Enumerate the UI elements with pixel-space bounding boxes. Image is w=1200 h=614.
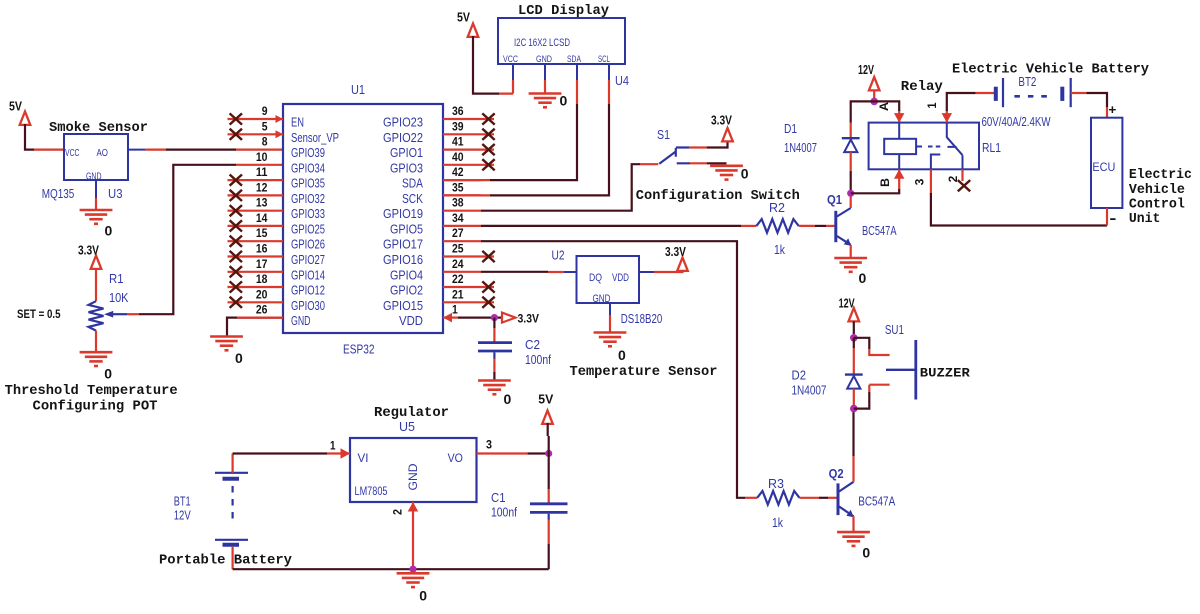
wire ECU - red: [1106, 208, 1108, 226]
svg-text:22: 22: [452, 272, 464, 286]
wire S1 left red: [640, 163, 658, 165]
power 5V (smoke sensor): [9, 99, 30, 125]
svg-text:-: -: [1109, 210, 1116, 227]
svg-text:DS18B20: DS18B20: [621, 311, 663, 326]
svg-text:RL1: RL1: [982, 140, 1001, 155]
svg-text:3: 3: [486, 438, 492, 452]
svg-text:5V: 5V: [538, 392, 553, 407]
wire U1 GND red: [237, 317, 283, 319]
svg-text:2: 2: [390, 509, 404, 515]
ground (U1 GND): [210, 337, 243, 367]
svg-text:B: B: [878, 178, 892, 187]
wire U5 VO dark: [528, 452, 549, 454]
svg-text:GPIO35: GPIO35: [291, 176, 325, 191]
junction (VDD 3.3V node): [491, 314, 498, 321]
svg-text:GPIO17: GPIO17: [383, 237, 423, 252]
svg-text:34: 34: [452, 211, 464, 225]
wire C1 bottom red: [548, 520, 550, 544]
wire U1 GPIO4 to U2 DQ: [481, 271, 548, 273]
svg-text:21: 21: [452, 287, 464, 301]
svg-text:BT1: BT1: [174, 494, 191, 509]
svg-text:SDA: SDA: [567, 54, 581, 65]
ESP32 U1 body: [283, 104, 443, 333]
svg-text:LM7805: LM7805: [355, 484, 388, 498]
wire VDD to C2: [493, 328, 495, 342]
svg-text:GPIO2: GPIO2: [390, 283, 423, 298]
wire C2 to ground: [493, 372, 495, 380]
svg-text:BC547A: BC547A: [862, 223, 897, 238]
wire relay pin B to junction: [851, 189, 900, 193]
U5 pin 2 arrow: [408, 502, 419, 512]
svg-text:10K: 10K: [109, 290, 129, 305]
svg-text:Portable Battery: Portable Battery: [159, 554, 292, 569]
svg-text:GND: GND: [408, 464, 420, 491]
wire S1 to 3.3V: [707, 140, 728, 148]
wire S1 top contact red: [689, 146, 707, 148]
capacitor C2 100nf: [478, 343, 512, 359]
svg-text:14: 14: [256, 211, 268, 225]
wire U5 VI red: [327, 452, 350, 454]
svg-text:GPIO27: GPIO27: [291, 252, 325, 267]
power 12V (buzzer): [839, 296, 860, 322]
svg-text:Control: Control: [1129, 198, 1185, 213]
relay RL1: [869, 123, 979, 170]
wire R2 to Q1 base red: [799, 225, 815, 227]
ground (C2): [478, 381, 511, 408]
regulator U5 LM7805: [350, 438, 477, 502]
svg-text:3: 3: [913, 178, 927, 185]
battery BT1: [215, 473, 248, 545]
wire R3 to Q2 base red: [800, 497, 820, 499]
svg-text:Sensor_VP: Sensor_VP: [291, 130, 339, 145]
svg-text:Configuring POT: Configuring POT: [33, 399, 158, 414]
wire U2 DQ red: [548, 271, 564, 273]
svg-text:12: 12: [256, 180, 268, 194]
svg-text:DQ: DQ: [589, 272, 602, 284]
wire buzzer top lead red: [869, 349, 889, 355]
svg-text:SCK: SCK: [402, 191, 423, 206]
svg-text:16: 16: [256, 241, 268, 255]
wire C1 top red: [548, 489, 550, 503]
wire relay pin B red: [898, 169, 900, 189]
ground (U2): [594, 333, 627, 364]
svg-text:BC547A: BC547A: [858, 494, 895, 509]
wire buzzer bottom lead: [854, 392, 870, 409]
svg-text:0: 0: [104, 367, 112, 382]
wire Q1 emitter: [850, 245, 852, 258]
svg-text:GPIO25: GPIO25: [291, 221, 325, 236]
ground (pot R1): [80, 352, 113, 381]
svg-text:D2: D2: [792, 368, 807, 383]
svg-text:C2: C2: [525, 337, 540, 352]
resistor R2 1k: [756, 219, 798, 233]
svg-text:0: 0: [105, 224, 113, 239]
U1 pin 42 (SDA): [402, 165, 481, 191]
svg-text:12V: 12V: [858, 62, 874, 77]
svg-text:1: 1: [452, 303, 458, 317]
svg-text:15: 15: [256, 226, 268, 240]
wire R3 to Q2 base dark: [819, 497, 828, 499]
wire R1 bottom: [95, 331, 97, 353]
wire ECU + red: [1106, 107, 1108, 118]
wire U5 VO red: [477, 452, 528, 454]
U1 pin 36 (GPIO23): [383, 104, 495, 130]
U1 pin 17 (GPIO14): [228, 257, 326, 283]
U5 pin 1 arrow: [341, 448, 351, 459]
U1 pin 20 (GPIO30): [228, 287, 326, 313]
svg-text:20: 20: [256, 287, 268, 301]
svg-text:11: 11: [256, 165, 268, 179]
junction (buzzer top): [850, 334, 858, 342]
svg-text:3.3V: 3.3V: [78, 243, 99, 258]
svg-text:0: 0: [618, 348, 626, 363]
U1 pin 22 (GPIO2): [390, 272, 495, 298]
wire R1 wiper to U1 pin 10: [139, 165, 236, 314]
power 12V (relay): [858, 62, 880, 90]
U1 pin 26 (GND): [256, 303, 311, 329]
svg-text:U5: U5: [399, 419, 415, 434]
svg-text:0: 0: [419, 589, 427, 604]
wire relay pin 3 to ECU: [931, 193, 1107, 226]
U1 pin 39 (GPIO22): [383, 119, 495, 145]
ground (S1): [710, 166, 749, 182]
svg-text:U1: U1: [351, 82, 365, 97]
svg-text:18: 18: [256, 272, 268, 286]
svg-text:27: 27: [452, 226, 464, 240]
relay pin A arrow: [894, 113, 905, 123]
ground (Q2): [837, 532, 870, 560]
svg-text:24: 24: [452, 257, 464, 271]
svg-text:C1: C1: [491, 490, 506, 505]
svg-text:GPIO3: GPIO3: [390, 160, 423, 175]
svg-text:SCL: SCL: [598, 54, 610, 65]
svg-text:U2: U2: [552, 248, 565, 263]
svg-text:GPIO12: GPIO12: [291, 283, 325, 298]
svg-text:AO: AO: [97, 148, 109, 159]
relay pin 1 arrow: [942, 113, 953, 123]
buzzer SU1: [886, 340, 916, 400]
wire 5V to VO junction: [548, 423, 549, 454]
svg-text:SDA: SDA: [402, 176, 423, 191]
wire VDD dark: [458, 317, 504, 319]
wire BT1 top red: [232, 454, 234, 473]
svg-text:VDD: VDD: [612, 272, 629, 284]
svg-text:VCC: VCC: [503, 54, 518, 65]
wire U5 GND pin: [412, 502, 414, 569]
svg-text:GPIO19: GPIO19: [383, 206, 423, 221]
wire LCD SCL to U1 SCK: [490, 104, 609, 195]
svg-text:VCC: VCC: [65, 148, 80, 159]
wire LCD GND pin: [544, 80, 546, 94]
svg-text:GPIO16: GPIO16: [383, 252, 423, 267]
svg-text:GPIO15: GPIO15: [383, 298, 423, 313]
svg-text:Unit: Unit: [1129, 212, 1161, 227]
svg-text:Smoke Sensor: Smoke Sensor: [49, 121, 148, 136]
svg-text:41: 41: [452, 135, 464, 149]
svg-text:3.3V: 3.3V: [711, 113, 732, 128]
resistor R3 1k: [757, 491, 799, 505]
wire VDD to C2 dark: [493, 318, 495, 328]
U1 pin 8 (GPIO39): [262, 135, 325, 161]
svg-text:GND: GND: [86, 172, 102, 183]
svg-text:0: 0: [741, 167, 749, 182]
wire D2 bottom: [853, 389, 855, 409]
wire R3 to Q2 base red2: [828, 497, 837, 499]
svg-text:0: 0: [504, 392, 512, 407]
wire buzzer top lead: [854, 338, 870, 349]
svg-text:GND: GND: [536, 54, 552, 65]
svg-text:1N4007: 1N4007: [792, 382, 827, 397]
svg-text:GPIO5: GPIO5: [390, 221, 423, 236]
svg-text:BUZZER: BUZZER: [920, 367, 970, 381]
svg-text:GPIO30: GPIO30: [291, 298, 325, 313]
svg-text:Vehicle: Vehicle: [1129, 183, 1185, 198]
power 3.3V (pot): [78, 243, 101, 269]
svg-text:3.3V: 3.3V: [518, 312, 540, 326]
svg-text:GPIO34: GPIO34: [291, 160, 325, 175]
capacitor C1 100nf: [530, 504, 568, 520]
svg-text:GPIO32: GPIO32: [291, 191, 325, 206]
U1 pin 16 (GPIO27): [228, 241, 326, 267]
net flag 3.3V (VDD): [502, 312, 539, 326]
svg-text:0: 0: [862, 546, 870, 561]
U1 pin 35 (SCK): [402, 180, 481, 206]
svg-text:GPIO1: GPIO1: [390, 145, 423, 160]
wire VDD red: [443, 317, 458, 319]
wire buzzer bottom lead red: [869, 385, 889, 392]
battery BT2: [996, 78, 1071, 107]
svg-text:25: 25: [452, 241, 464, 255]
U1 pin 5 (Sensor_VP): [228, 119, 340, 145]
wire R1 wiper red: [127, 313, 139, 315]
wire 12V to D1: [851, 101, 875, 122]
wire U1 GPIO5 to R2: [481, 225, 741, 227]
svg-text:GPIO26: GPIO26: [291, 237, 325, 252]
power 5V (regulator): [538, 392, 553, 424]
svg-text:3.3V: 3.3V: [665, 244, 686, 259]
wire LCD SCL to U1 SCK red: [443, 194, 490, 196]
wire BT2 left red: [976, 92, 995, 94]
svg-text:12V: 12V: [174, 508, 191, 523]
U1 pin 11 (GPIO35): [228, 165, 326, 191]
wire Q2 collector dark: [852, 409, 854, 456]
wire LCD SDA to U1 SDA red: [443, 179, 490, 181]
wire R1 wiper to U1 pin 10 red: [236, 164, 283, 166]
svg-text:8: 8: [262, 135, 268, 149]
wire 12V to relay pin A: [874, 101, 899, 111]
svg-text:Q1: Q1: [827, 193, 842, 207]
temperature sensor U2 DS18B20: [564, 256, 654, 315]
label Electric Vehicle Control Unit: [1129, 168, 1192, 227]
svg-text:GPIO22: GPIO22: [383, 130, 423, 145]
wire relay pin 1 to BT2: [947, 93, 976, 111]
wire R3 left red: [745, 497, 757, 499]
svg-text:1k: 1k: [772, 515, 783, 530]
U1 pin 40 (GPIO3): [390, 150, 495, 176]
ground (Q1): [834, 258, 867, 286]
wire LCD SCL red: [608, 80, 610, 104]
wire D2 top red: [853, 348, 855, 374]
wire U3 AO to U1 pin 8 red: [236, 149, 283, 151]
svg-text:1: 1: [925, 102, 939, 108]
wire VO junction to C1 dark: [548, 454, 550, 490]
U1 pin 34 (GPIO5): [390, 211, 481, 237]
svg-text:38: 38: [452, 196, 464, 210]
svg-text:42: 42: [452, 165, 464, 179]
svg-text:5V: 5V: [9, 99, 22, 114]
wire S1 bottom to ground: [707, 162, 727, 164]
svg-text:A: A: [877, 102, 891, 111]
svg-text:VO: VO: [448, 453, 463, 465]
svg-text:ESP32: ESP32: [343, 342, 375, 357]
wire U1 GPIO17 to R3: [481, 241, 745, 498]
U1 pin 1 (VDD): [399, 303, 458, 329]
svg-text:100nf: 100nf: [525, 352, 551, 367]
svg-text:Relay: Relay: [901, 80, 943, 95]
wire Q2 emitter: [852, 516, 854, 532]
wire Q2 collector red: [852, 456, 854, 482]
svg-text:GND: GND: [593, 293, 611, 305]
svg-text:U4: U4: [615, 73, 629, 88]
svg-text:R3: R3: [768, 476, 784, 491]
svg-text:+: +: [1108, 102, 1116, 117]
U1 pin 38 (GPIO19): [383, 196, 481, 222]
wire relay pin 1 red: [946, 111, 948, 123]
wire LCD SDA to U1 SDA: [490, 104, 577, 180]
U1 pin 14 (GPIO25): [228, 211, 326, 237]
svg-text:36: 36: [452, 104, 464, 118]
svg-text:GPIO39: GPIO39: [291, 145, 325, 160]
junction (12V relay): [870, 98, 878, 106]
wire 12V buzzer stem: [853, 321, 855, 334]
svg-text:10: 10: [256, 150, 268, 164]
wire 5V to LCD VCC red: [499, 80, 513, 94]
wire R2 to Q1 base dark: [815, 225, 826, 227]
diode D2 1N4007: [845, 375, 863, 389]
svg-text:1N4007: 1N4007: [784, 140, 817, 155]
no-connect X (relay pin 2): [958, 180, 970, 191]
wire 12V stem: [873, 90, 875, 102]
wire D1 bottom red: [850, 152, 852, 171]
wire 12V to D2: [853, 338, 855, 348]
svg-text:SET = 0.5: SET = 0.5: [17, 307, 61, 321]
svg-text:Q2: Q2: [829, 467, 844, 481]
wire BT1 to U5 VI: [233, 452, 327, 454]
svg-text:GPIO4: GPIO4: [390, 267, 423, 282]
U1 pin 18 (GPIO12): [228, 272, 326, 298]
wire C2 bottom red: [493, 359, 495, 372]
transistor Q1 BC547A: [836, 208, 851, 246]
svg-text:I2C 16X2 LCSD: I2C 16X2 LCSD: [514, 37, 570, 49]
transistor Q2 BC547A: [838, 482, 854, 518]
svg-text:S1: S1: [657, 127, 670, 142]
wire U1 GND to ground: [227, 318, 283, 337]
U1 pin 24 (GPIO4): [390, 257, 481, 283]
power 3.3V (U2): [665, 244, 688, 271]
wire bottom rail: [233, 568, 549, 570]
power 3.3V (S1): [711, 113, 733, 142]
relay pin 2 stub: [961, 169, 963, 181]
junction (rail ground): [409, 566, 416, 573]
svg-text:60V/40A/2.4KW: 60V/40A/2.4KW: [982, 114, 1052, 129]
junction (buzzer bottom): [850, 405, 858, 413]
svg-text:17: 17: [256, 257, 268, 271]
svg-text:Electric Vehicle Battery: Electric Vehicle Battery: [952, 63, 1149, 78]
U1 pin 27 (GPIO17): [383, 226, 481, 252]
svg-text:EN: EN: [291, 115, 304, 130]
ground (LCD): [529, 94, 568, 109]
junction (5V node): [545, 450, 552, 457]
wire R2 left red: [741, 225, 756, 227]
svg-text:12V: 12V: [839, 296, 855, 311]
svg-text:1: 1: [330, 439, 336, 453]
diode D1 1N4007: [842, 138, 860, 152]
svg-text:100nf: 100nf: [491, 505, 517, 520]
svg-text:VDD: VDD: [399, 313, 423, 328]
wire S1 bottom contact red: [690, 162, 707, 164]
svg-text:MQ135: MQ135: [42, 186, 75, 201]
U1 pin 9 (EN): [228, 104, 305, 130]
svg-text:5V: 5V: [457, 10, 470, 25]
svg-text:0: 0: [859, 271, 867, 286]
svg-text:SU1: SU1: [885, 322, 904, 337]
smoke sensor U3 (MQ135): [64, 134, 145, 198]
wire D1 top red: [850, 123, 852, 139]
svg-text:VI: VI: [358, 453, 369, 465]
wire U3 GND pin: [95, 198, 97, 210]
U1 pin 10 (GPIO34): [256, 150, 325, 176]
svg-text:D1: D1: [784, 121, 797, 136]
relay pin B arrow: [894, 169, 905, 179]
ground (regulator rail): [397, 573, 430, 603]
wire R2 to Q1 base red2: [826, 225, 835, 227]
wire LCD SDA red: [576, 80, 578, 104]
wire 5V to U3 VCC: [25, 124, 34, 150]
U1 pin 41 (GPIO1): [390, 135, 495, 161]
svg-text:39: 39: [452, 119, 464, 133]
wire U3 AO red: [145, 149, 166, 151]
svg-text:0: 0: [235, 351, 243, 366]
wire U1 GPIO19 to S1: [481, 164, 640, 211]
U1 pin 12 (GPIO32): [228, 180, 326, 206]
wire C1 to rail: [548, 544, 550, 569]
wire 5V to U3 VCC red: [34, 149, 64, 151]
wire BT1 bottom red: [232, 547, 234, 569]
wire U2 GND red: [609, 315, 611, 333]
svg-text:Electric: Electric: [1129, 168, 1192, 183]
wire D1 to Q1 junction: [850, 171, 852, 194]
U1 VDD arrow: [443, 313, 452, 323]
svg-text:0: 0: [560, 94, 568, 109]
junction (Q1 collector node): [847, 190, 854, 197]
svg-text:U3: U3: [108, 186, 123, 201]
wire relay pin A red: [898, 111, 900, 123]
wire relay pin 3 red: [930, 169, 932, 193]
U1 pin 21 (GPIO15): [383, 287, 495, 313]
U1 pin 25 (GPIO16): [383, 241, 495, 267]
U1 pin 13 (GPIO33): [228, 196, 326, 222]
svg-text:ECU: ECU: [1092, 160, 1115, 174]
svg-text:GPIO33: GPIO33: [291, 206, 325, 221]
svg-text:GPIO14: GPIO14: [291, 267, 325, 282]
svg-text:35: 35: [452, 180, 464, 194]
wire 5V to LCD VCC: [473, 36, 499, 94]
svg-text:Threshold Temperature: Threshold Temperature: [5, 384, 178, 399]
svg-text:LCD Display: LCD Display: [518, 4, 609, 19]
LCD display U4: [498, 18, 625, 80]
potentiometer R1 10K: [89, 301, 128, 330]
svg-text:R1: R1: [109, 271, 124, 286]
